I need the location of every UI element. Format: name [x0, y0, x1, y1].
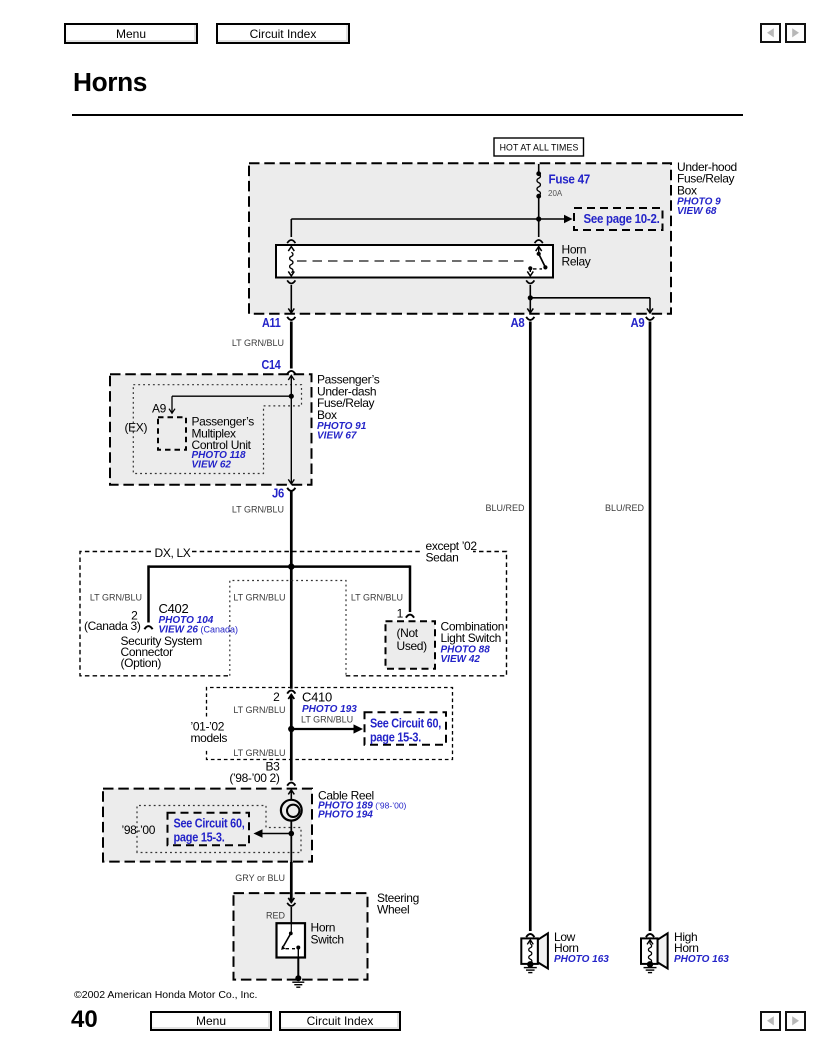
see circuit 60 page 15-3 reference box ('98-'00) — [168, 813, 250, 846]
wire: A8 down to low horn, BLU/RED — [529, 322, 532, 932]
cable reel label — [318, 788, 407, 820]
wire: branch to see page 10-2 with arrow — [291, 215, 572, 223]
passenger's multiplex control unit — [158, 417, 186, 450]
terminal fork: low horn — [526, 934, 534, 937]
wire: branch to A9 terminal — [530, 298, 653, 313]
svg-text:(Not: (Not — [397, 626, 419, 640]
top nav next — [785, 23, 806, 43]
svg-text:Box: Box — [677, 183, 697, 197]
low horn coil — [527, 940, 533, 963]
passenger's under-dash fuse/relay box — [110, 374, 312, 485]
wire: cable reel to steering wheel, GRY or BLU — [290, 862, 293, 902]
top button Circuit Index — [216, 23, 350, 44]
horn relay label — [562, 243, 591, 269]
combination light switch label — [441, 619, 505, 665]
security system connector label — [121, 634, 203, 670]
footer copyright — [74, 989, 257, 1001]
high horn ground — [644, 961, 657, 973]
horn switch S1 — [277, 923, 306, 957]
cable reel box — [103, 789, 312, 862]
svg-text:PHOTO 163: PHOTO 163 — [674, 954, 729, 965]
under-hood fuse/relay box — [249, 163, 671, 313]
svg-text:C14: C14 — [262, 357, 282, 372]
wire: C14 through passenger box to J6 — [288, 376, 294, 484]
wire: arrow to see circuit 60 ('98-'00) — [254, 829, 292, 838]
'01-'02 models variant box — [207, 688, 453, 760]
svg-text:VIEW 62: VIEW 62 — [192, 460, 232, 471]
fuse 47 (20A) — [537, 172, 541, 198]
svg-text:Switch: Switch — [311, 933, 344, 947]
svg-text:(EX): (EX) — [125, 421, 148, 435]
connector C410 label — [302, 690, 357, 715]
node B3 — [229, 759, 280, 784]
svg-text:J6: J6 — [272, 486, 284, 501]
svg-text:(Option): (Option) — [121, 656, 162, 670]
DX, LX / except '02 Sedan variant box — [80, 552, 507, 676]
wire: switch to A8 terminal — [527, 285, 533, 313]
low horn ground — [524, 961, 537, 973]
bottom button Circuit Index — [279, 1011, 401, 1031]
passenger's under-dash box label — [317, 373, 380, 442]
top button Menu — [64, 23, 198, 44]
svg-text:See page 10-2.: See page 10-2. — [584, 211, 660, 226]
svg-text:A8: A8 — [511, 315, 525, 330]
svg-text:Light Switch: Light Switch — [441, 631, 502, 645]
combination light switch (not used) box — [386, 621, 436, 669]
wire: branch left to security system connector — [149, 565, 292, 622]
see page 10-2 reference box — [574, 208, 663, 230]
svg-text:models: models — [191, 731, 228, 745]
high horn coil — [647, 940, 653, 963]
svg-text:DX, LX: DX, LX — [155, 546, 191, 560]
title rule — [72, 114, 743, 116]
except '02 Sedan label — [426, 539, 478, 564]
svg-text:LT GRN/BLU: LT GRN/BLU — [233, 748, 285, 758]
wire: coil to A11 terminal — [288, 285, 294, 313]
svg-text:BLU/RED: BLU/RED — [605, 503, 645, 513]
svg-text:PHOTO 194: PHOTO 194 — [318, 810, 373, 821]
svg-text:C410: C410 — [302, 690, 332, 705]
svg-text:BLU/RED: BLU/RED — [485, 503, 525, 513]
svg-text:VIEW 42: VIEW 42 — [441, 654, 481, 665]
under-hood fuse/relay box label — [677, 160, 737, 217]
terminal fork: relay switch bottom — [526, 280, 534, 283]
svg-text:’98-’00: ’98-’00 — [122, 823, 156, 837]
terminal fork: security connector pin 2 — [144, 626, 152, 629]
cable reel inner dotted region '98-'00 — [137, 806, 301, 853]
svg-text:2: 2 — [273, 690, 280, 704]
svg-text:HOT AT ALL TIMES: HOT AT ALL TIMES — [500, 143, 579, 153]
svg-text:See Circuit 60,: See Circuit 60, — [370, 715, 441, 730]
terminal fork: cable reel top — [287, 783, 295, 786]
bottom button Menu — [150, 1011, 272, 1031]
horn switch contacts — [281, 923, 300, 957]
svg-text:(Canada 3): (Canada 3) — [84, 619, 141, 633]
wire: fuse to horn relay — [538, 197, 540, 237]
ground G501 (steering wheel) — [292, 975, 304, 987]
svg-text:Fuse 47: Fuse 47 — [549, 172, 591, 187]
connector C410 (inline pair) — [287, 691, 295, 694]
svg-text:LT GRN/BLU: LT GRN/BLU — [232, 338, 284, 348]
high horn label — [674, 930, 729, 965]
horn relay switch contacts — [527, 246, 547, 276]
svg-text:A11: A11 — [262, 315, 281, 330]
steering wheel label — [377, 891, 419, 917]
terminal fork: relay coil top — [287, 240, 295, 243]
low horn body — [521, 938, 538, 964]
page title Horns — [73, 67, 147, 98]
wire: A9 down to high horn, BLU/RED — [649, 322, 652, 932]
see circuit 60 page 15-3 reference box ('01-'02) — [365, 712, 447, 745]
high horn — [641, 930, 729, 973]
junction: fuse node to see-page branch — [536, 216, 541, 221]
center dotted region — [230, 581, 346, 676]
svg-text:LT GRN/BLU: LT GRN/BLU — [232, 504, 284, 514]
steering wheel box — [234, 893, 368, 980]
wire: branch to A9 multiplex pin — [169, 396, 291, 413]
'01-'02 models label — [191, 719, 228, 745]
svg-text:Sedan: Sedan — [426, 551, 459, 565]
horn relay internal dashed link — [297, 260, 526, 262]
low horn — [521, 930, 609, 973]
low horn flare — [538, 933, 548, 968]
svg-text:20A: 20A — [548, 189, 563, 198]
wire: J6 down, LT GRN/BLU — [290, 492, 293, 689]
svg-text:A9: A9 — [152, 401, 167, 415]
wire: A11 to C14, LT GRN/BLU — [290, 322, 293, 369]
passenger's multiplex control unit label — [192, 415, 255, 471]
svg-text:(’98-’00 2): (’98-’00 2) — [229, 771, 280, 785]
junction: A8/A9 branch — [528, 295, 533, 300]
wire: arrow to see circuit 60 — [291, 724, 363, 733]
connector C402 — [159, 601, 239, 635]
wire: into cable reel — [288, 790, 294, 800]
passenger box inner dotted region (EX) — [133, 385, 301, 474]
junction: branch to circuit 60 — [288, 726, 294, 732]
svg-text:Used): Used) — [397, 639, 428, 653]
svg-text:See Circuit 60,: See Circuit 60, — [174, 816, 245, 831]
svg-text:PHOTO 193: PHOTO 193 — [302, 704, 357, 715]
horn relay coil — [288, 247, 294, 276]
svg-text:LT GRN/BLU: LT GRN/BLU — [301, 715, 353, 725]
wire: horn switch to ground — [297, 958, 299, 977]
svg-text:page 15-3.: page 15-3. — [174, 830, 225, 845]
svg-text:Relay: Relay — [562, 255, 591, 269]
svg-text:Box: Box — [317, 408, 337, 422]
svg-text:PHOTO 163: PHOTO 163 — [554, 954, 609, 965]
terminal fork: relay switch top — [535, 240, 543, 243]
svg-text:Wheel: Wheel — [377, 903, 409, 917]
svg-text:A9: A9 — [631, 315, 645, 330]
node: HOT AT ALL TIMES — [494, 138, 584, 156]
svg-text:page 15-3.: page 15-3. — [370, 729, 421, 744]
bottom nav prev — [760, 1011, 781, 1031]
terminal fork: high horn — [646, 934, 654, 937]
wire: cable reel to steering wheel — [290, 821, 292, 863]
svg-text:LT GRN/BLU: LT GRN/BLU — [233, 593, 285, 603]
svg-text:VIEW 67: VIEW 67 — [317, 431, 357, 442]
horn relay U1 — [276, 245, 553, 278]
svg-text:RED: RED — [266, 911, 286, 921]
svg-text:LT GRN/BLU: LT GRN/BLU — [90, 593, 142, 603]
wire: branch right to combination light switch — [291, 565, 410, 612]
high horn flare — [658, 933, 668, 968]
svg-text:LT GRN/BLU: LT GRN/BLU — [233, 705, 285, 715]
cable reel spiral — [281, 800, 302, 821]
footer page number 40 — [71, 1006, 98, 1034]
junction: branch to circuit 60 ('98-'00) — [289, 831, 295, 837]
svg-text:VIEW 68: VIEW 68 — [677, 206, 717, 217]
junction: J6 wire splits to security connector and light switch — [288, 563, 294, 569]
terminal fork: light switch pin 1 — [406, 615, 414, 618]
svg-text:GRY or BLU: GRY or BLU — [235, 873, 285, 883]
wire: to horn switch, RED — [290, 907, 292, 923]
svg-text:1: 1 — [397, 607, 404, 621]
top nav prev — [760, 23, 781, 43]
junction: branch to multiplex control unit — [289, 394, 294, 399]
terminal fork: relay coil bottom — [287, 280, 295, 283]
high horn body — [641, 938, 658, 964]
wire: branch down to relay coil — [290, 219, 292, 237]
low horn label — [554, 930, 609, 965]
horn switch label — [311, 921, 344, 947]
inline connector into steering wheel — [287, 898, 295, 906]
wire: battery feed into fuse — [538, 164, 540, 173]
bottom nav next — [785, 1011, 806, 1031]
svg-text:LT GRN/BLU: LT GRN/BLU — [351, 593, 403, 603]
